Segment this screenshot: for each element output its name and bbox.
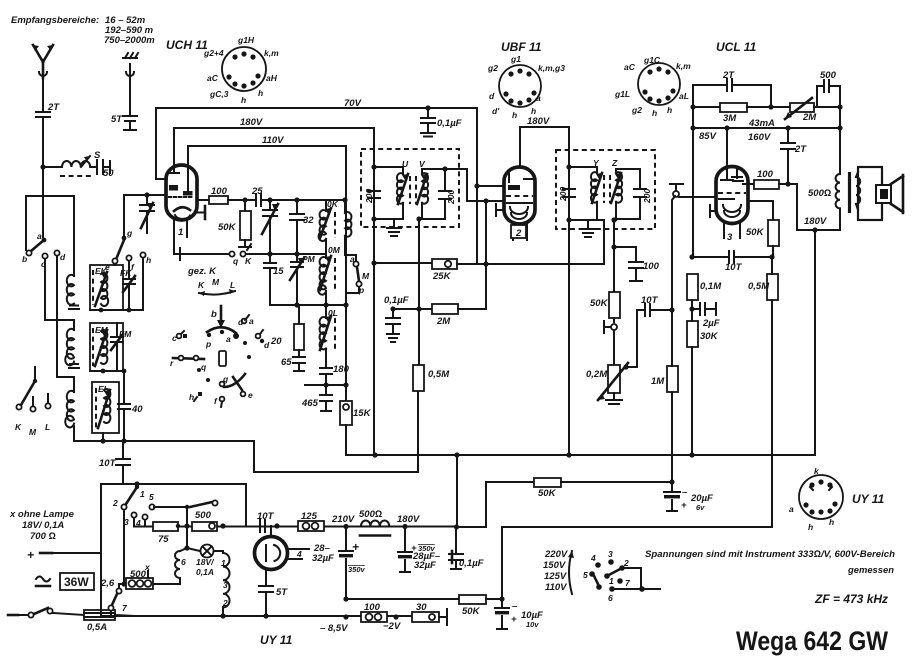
svg-text:43mA: 43mA	[748, 118, 775, 129]
svg-text:Spannungen sind mit Instrument: Spannungen sind mit Instrument 333Ω/V, 6…	[645, 549, 895, 560]
capacitor 10T rectifier	[257, 511, 275, 532]
svg-text:aH: aH	[266, 73, 278, 83]
svg-text:0M: 0M	[328, 245, 341, 255]
svg-text:d: d	[60, 252, 66, 262]
svg-text:50K: 50K	[218, 222, 237, 233]
svg-text:2T: 2T	[722, 70, 735, 81]
wire EM bottom row	[90, 370, 124, 372]
svg-text:6: 6	[608, 593, 613, 603]
wire left bus y441 to y472 step	[74, 391, 418, 472]
capacitor 15	[264, 254, 284, 305]
svg-text:2T: 2T	[794, 144, 807, 155]
svg-text:180V: 180V	[804, 216, 827, 227]
svg-text:200: 200	[642, 189, 652, 204]
svg-text:aC: aC	[624, 62, 636, 72]
node IF1 top dot	[371, 164, 376, 169]
svg-text:L: L	[230, 280, 235, 290]
coil U IF1 primary	[374, 159, 410, 219]
wire V1 cathode to q-row	[174, 250, 180, 254]
svg-text:50K: 50K	[462, 606, 481, 617]
wire wiper to 10T	[626, 310, 637, 367]
capacitor 500 feedback	[817, 70, 840, 107]
wire V1 grid row y195	[147, 194, 165, 196]
coil Y IF2 primary	[569, 158, 604, 220]
capacitor 10T det2	[692, 251, 772, 273]
svg-text:1: 1	[140, 489, 145, 499]
svg-text:5: 5	[583, 570, 588, 580]
svg-text:0,1µF: 0,1µF	[437, 118, 462, 129]
svg-text:25K: 25K	[432, 271, 452, 282]
svg-text:750–2000m: 750–2000m	[104, 35, 155, 46]
trimmer FM	[111, 323, 132, 371]
resistor 30K	[687, 300, 719, 455]
grid cap terminal V1	[197, 212, 205, 214]
svg-text:−2V: −2V	[383, 621, 401, 632]
svg-text:+: +	[511, 614, 517, 625]
resistor 0,5M	[413, 365, 450, 391]
wire osc feed vertical x346	[345, 146, 347, 401]
wire IF1 feed vertical x374	[373, 128, 375, 455]
svg-text:0,1µF: 0,1µF	[384, 295, 409, 306]
wire antenna to switch a	[42, 167, 44, 237]
IF transformer 1 shield box	[361, 149, 459, 227]
svg-text:50K: 50K	[746, 227, 765, 238]
svg-text:65: 65	[281, 357, 292, 368]
oscillator coil 0L	[320, 291, 338, 350]
capacitor 2T feedback top	[693, 70, 771, 107]
resistor 15K osc	[340, 401, 372, 425]
filter choke 500R	[359, 509, 390, 536]
svg-text:k,m,g3: k,m,g3	[538, 63, 565, 73]
node 70V/0,1uF junction	[425, 105, 430, 110]
capacitor 40	[118, 371, 143, 441]
capacitor 200 IF1 right	[439, 169, 456, 219]
svg-text:L: L	[45, 422, 50, 432]
fuse resistor 125	[298, 511, 324, 531]
capacitor 465	[301, 385, 332, 411]
wire IF2 feed x569	[568, 127, 570, 455]
wire grid2 feed x477	[477, 185, 504, 187]
capacitor 25	[251, 186, 345, 206]
wire -8,5V row y599	[346, 598, 459, 600]
svg-text:85V: 85V	[699, 131, 717, 142]
capacitor 32	[290, 200, 314, 254]
resistor 0,5M right	[748, 257, 778, 527]
wire V bottom down x419	[418, 219, 420, 365]
svg-text:700 Ω: 700 Ω	[30, 531, 56, 542]
svg-text:125V: 125V	[544, 571, 567, 582]
potentiometer 2M tone	[785, 98, 840, 123]
svg-text:+: +	[681, 500, 687, 511]
wire bracket input divider	[26, 196, 74, 276]
svg-text:q: q	[201, 362, 207, 372]
coil V IF1 secondary	[416, 159, 445, 219]
svg-text:125: 125	[301, 511, 318, 522]
coil L2 antenna M	[65, 329, 79, 368]
capacitor 0,1uF AF	[384, 295, 409, 342]
heater winding left	[152, 548, 187, 584]
svg-text:500Ω: 500Ω	[808, 188, 831, 199]
svg-text:110V: 110V	[262, 135, 284, 146]
svg-text:0,5M: 0,5M	[748, 281, 770, 292]
capacitor 2T anode	[781, 128, 807, 184]
svg-text:36W: 36W	[64, 575, 89, 589]
rheostat 500 x	[121, 562, 153, 589]
resistor 0,1M	[687, 274, 722, 300]
svg-text:h: h	[146, 255, 151, 265]
svg-text:–: –	[682, 487, 688, 498]
resistor 3M	[693, 103, 790, 124]
svg-text:40: 40	[131, 404, 143, 415]
output transformer 500R	[808, 107, 860, 230]
socket diagram UBF11	[487, 40, 565, 120]
svg-text:5: 5	[149, 492, 154, 502]
svg-text:100: 100	[643, 261, 660, 272]
wire EK bottom row	[90, 258, 143, 310]
svg-text:100: 100	[364, 602, 381, 613]
capacitor 200 IF2 right	[616, 169, 652, 219]
svg-text:b: b	[22, 254, 27, 264]
wire ground bus main y455	[346, 425, 814, 455]
svg-text:4: 4	[296, 549, 302, 559]
svg-text:500Ω: 500Ω	[359, 509, 382, 520]
wire 110V rail	[188, 145, 346, 147]
svg-text:0,1A: 0,1A	[196, 567, 214, 577]
svg-text:3: 3	[608, 549, 613, 559]
oscillator coil 0M	[318, 240, 341, 295]
ground IF1	[387, 219, 401, 236]
lamp 18V 0,1A	[184, 526, 223, 577]
svg-text:M: M	[362, 271, 370, 281]
svg-text:k,m: k,m	[676, 61, 691, 71]
voltage selector contacts	[583, 549, 660, 603]
capacitor 0,1uF HF power	[449, 455, 484, 569]
svg-text:b: b	[211, 309, 217, 320]
svg-text:EL: EL	[98, 384, 109, 394]
antenna A1	[33, 45, 53, 78]
svg-text:h: h	[531, 106, 536, 116]
capacitor 20uF electrolytic	[664, 482, 713, 512]
wire 180V down to bus	[814, 230, 816, 455]
svg-text:2µF: 2µF	[702, 318, 720, 329]
node Z bottom out	[611, 217, 616, 222]
svg-text:h: h	[241, 95, 246, 105]
voltage selector labels	[543, 549, 574, 594]
resistor 100 anode V1	[197, 186, 256, 204]
svg-text:e: e	[105, 262, 110, 272]
svg-text:100: 100	[757, 169, 774, 180]
terminal - mains	[8, 608, 84, 618]
svg-text:M: M	[212, 277, 220, 287]
tube UCL11 V3 envelope	[710, 166, 748, 243]
switch contacts g e f h	[105, 195, 151, 272]
svg-text:– 8,5V: – 8,5V	[320, 623, 348, 634]
svg-text:k,m: k,m	[264, 48, 279, 58]
svg-text:50K: 50K	[538, 488, 557, 499]
wire row y385	[305, 384, 346, 386]
wire right frame x246	[245, 484, 247, 526]
switch contacts 1-5 mains	[112, 485, 187, 584]
svg-text:Z: Z	[611, 158, 618, 168]
svg-text:g1: g1	[510, 54, 521, 64]
svg-text:h: h	[652, 108, 657, 118]
tube V2 label 2	[511, 225, 526, 239]
svg-text:15K: 15K	[353, 408, 372, 419]
svg-text:g2+4: g2+4	[203, 48, 224, 58]
svg-text:M: M	[29, 427, 37, 437]
svg-text:–: –	[512, 601, 518, 612]
wire diode return x486	[485, 201, 487, 309]
svg-text:70V: 70V	[344, 98, 362, 109]
svg-text:180: 180	[333, 364, 350, 375]
power rating box 36W	[60, 573, 94, 590]
svg-text:75: 75	[158, 534, 169, 545]
svg-text:100: 100	[211, 186, 228, 197]
node bus-left dots	[100, 438, 105, 443]
socket diagram UY11	[789, 466, 885, 532]
wire heater row y526	[134, 526, 456, 528]
svg-text:32µF: 32µF	[312, 553, 334, 564]
switch shorting 500	[184, 500, 217, 528]
oscillator coil 0K	[319, 199, 352, 255]
capacitor 2T antenna	[36, 78, 60, 167]
svg-text:UCH 11: UCH 11	[166, 38, 208, 52]
resistor 500 dropper	[192, 510, 217, 531]
svg-text:4: 4	[590, 553, 596, 563]
svg-text:3: 3	[727, 232, 733, 243]
svg-text:K: K	[198, 280, 205, 290]
wire -8,5V rail y527	[502, 527, 772, 599]
capacitor 10T bus	[99, 441, 130, 483]
wire V3 feeds vertical x693	[692, 85, 694, 257]
capacitor 100 detector	[614, 247, 660, 281]
svg-text:UY 11: UY 11	[852, 492, 885, 506]
svg-text:20: 20	[270, 336, 282, 347]
note Empfangsbereiche ranges	[11, 15, 155, 46]
coil Z IF2 secondary	[610, 158, 640, 220]
note x ohne Lampe	[9, 509, 75, 542]
capacitor 5T rectifier	[259, 569, 288, 616]
svg-text:150V: 150V	[543, 560, 566, 571]
svg-text:0,5M: 0,5M	[428, 369, 450, 380]
svg-text:0,1µF: 0,1µF	[459, 558, 484, 569]
trimmer PM	[290, 254, 316, 305]
svg-text:g2: g2	[631, 105, 642, 115]
tube UBF11 V2 envelope	[496, 167, 535, 240]
svg-text:d: d	[264, 340, 270, 350]
svg-text:g: g	[126, 228, 133, 238]
svg-text:UY 11: UY 11	[260, 633, 293, 647]
svg-text:+: +	[352, 540, 359, 554]
speaker	[858, 167, 903, 220]
wire d to coil L row	[57, 256, 74, 392]
wire 70V rail	[156, 108, 477, 264]
svg-text:a: a	[789, 504, 794, 514]
switch S1b contacts K M L	[15, 367, 51, 437]
svg-text:30K: 30K	[700, 331, 719, 342]
socket diagram UCL11	[614, 40, 757, 118]
fuse 0,5A	[84, 610, 134, 633]
coil EM with core	[90, 323, 123, 371]
svg-text:1M: 1M	[651, 376, 665, 387]
pickup input symbol V3 grid	[670, 184, 716, 310]
svg-text:ZF = 473 kHz: ZF = 473 kHz	[814, 592, 888, 606]
capacitor 65	[281, 357, 305, 371]
svg-text:g1L: g1L	[614, 89, 630, 99]
wire 180V rail	[174, 127, 374, 129]
svg-text:K: K	[15, 422, 22, 432]
svg-text:x ohne Lampe: x ohne Lampe	[9, 509, 75, 520]
coil EL with core	[92, 382, 119, 441]
wire c to coil M	[45, 259, 74, 330]
svg-text:aC: aC	[207, 73, 219, 83]
wire 180V rail to 50K row	[456, 482, 486, 527]
svg-text:EM: EM	[95, 325, 109, 335]
svg-text:Empfangsbereiche:: Empfangsbereiche:	[11, 15, 99, 26]
node IF2 dots	[566, 164, 571, 169]
svg-text:10T: 10T	[641, 295, 659, 306]
svg-text:FM: FM	[119, 329, 132, 339]
svg-text:gemessen: gemessen	[847, 565, 894, 576]
capacitor 180	[320, 349, 350, 385]
wire V3 cathode to 50K	[748, 201, 773, 220]
svg-text:+: +	[27, 548, 34, 562]
svg-text:a: a	[249, 316, 254, 326]
capacitor 200 IF2 left	[558, 187, 575, 202]
coil L1 antenna K	[67, 275, 79, 309]
svg-text:200: 200	[558, 187, 568, 202]
resistor 100 V3 anode	[743, 169, 797, 230]
wire detector output x614	[614, 220, 616, 292]
switch contacts a M p osc	[346, 254, 370, 295]
resistor 30	[412, 602, 447, 625]
svg-text:2M: 2M	[436, 316, 451, 327]
wire V2 anode to 180V	[520, 127, 569, 167]
resistor 20 column	[270, 305, 304, 357]
svg-text:10T: 10T	[99, 458, 117, 469]
svg-text:c: c	[172, 333, 177, 343]
svg-text:18V/ 0,1A: 18V/ 0,1A	[22, 520, 64, 531]
svg-text:0,5A: 0,5A	[87, 622, 107, 633]
svg-text:210V: 210V	[331, 514, 355, 525]
svg-text:6: 6	[181, 557, 186, 567]
IF transformer 2 shield box	[556, 150, 655, 229]
svg-text:10T: 10T	[725, 262, 743, 273]
wire V top to diode line	[445, 169, 504, 201]
svg-text:e: e	[248, 390, 253, 400]
svg-text:1: 1	[178, 227, 183, 238]
svg-text:1: 1	[221, 558, 226, 568]
node 2uF junction	[689, 306, 694, 311]
svg-text:d': d'	[492, 106, 500, 116]
svg-text:50: 50	[103, 168, 114, 179]
socket diagram UCH11	[166, 35, 279, 105]
svg-text:32µF: 32µF	[414, 560, 436, 571]
switch S1a contacts a b c d	[22, 231, 66, 269]
svg-text:10v: 10v	[526, 620, 539, 629]
svg-text:a: a	[37, 231, 42, 241]
node 50K-row junction	[669, 479, 674, 484]
svg-text:q: q	[233, 256, 239, 266]
resistor 50K cathode	[746, 220, 779, 257]
electrolytic 10uF bias	[495, 599, 543, 629]
svg-text:PM: PM	[302, 254, 316, 264]
svg-text:a: a	[226, 334, 231, 344]
capacitor 10T coupling	[637, 295, 672, 316]
svg-text:a: a	[536, 93, 541, 103]
capacitor 0,1uF decoupling 70V	[421, 108, 462, 137]
svg-text:g2: g2	[487, 63, 498, 73]
svg-text:25: 25	[251, 186, 263, 197]
svg-text:180V: 180V	[240, 117, 263, 128]
terminal + mains	[27, 548, 101, 562]
svg-text:6v: 6v	[696, 503, 705, 512]
heater winding right taps 1 3 2	[221, 551, 230, 616]
electrolytic 28uF-32uF output	[398, 526, 441, 572]
svg-text:180V: 180V	[397, 514, 420, 525]
wafer switch diagram	[170, 306, 270, 407]
svg-text:g1H: g1H	[237, 35, 255, 45]
svg-text:h: h	[829, 517, 834, 527]
svg-text:h: h	[512, 110, 517, 120]
antenna ground A2	[123, 53, 138, 76]
svg-text:3: 3	[223, 580, 228, 590]
svg-text:32: 32	[303, 215, 314, 226]
coil L3 antenna L	[65, 391, 74, 441]
svg-text:465: 465	[301, 398, 319, 409]
pickup jack symbol	[604, 318, 617, 365]
wirewound resistor 100	[343, 602, 387, 622]
capacitor 2uF	[692, 303, 720, 329]
electrolytic 28-32uF input	[312, 526, 366, 599]
svg-text:180V: 180V	[527, 116, 550, 127]
svg-text:30: 30	[416, 602, 427, 613]
svg-text:160V: 160V	[748, 132, 771, 143]
wire 180V output node	[797, 229, 840, 231]
svg-text:2T: 2T	[47, 102, 60, 113]
note measurement conditions	[645, 549, 895, 576]
trimmer FK	[120, 261, 135, 310]
wire bottom rail y616	[101, 615, 412, 617]
svg-text:50K: 50K	[590, 298, 609, 309]
switch 2,6 / 7	[100, 578, 128, 616]
svg-text:p: p	[205, 339, 211, 349]
svg-text:110V: 110V	[545, 582, 567, 593]
svg-text:aL: aL	[679, 91, 689, 101]
svg-text:g1C: g1C	[643, 55, 661, 65]
tube UCH11 V1 envelope	[156, 108, 197, 250]
svg-text:h: h	[667, 105, 672, 115]
svg-text:h: h	[258, 88, 263, 98]
svg-text:200: 200	[364, 189, 374, 204]
svg-text:K: K	[245, 256, 252, 266]
note K M L arrow	[198, 277, 235, 296]
node bus dots	[372, 452, 377, 457]
svg-text:5T: 5T	[276, 587, 288, 598]
svg-text:gC,3: gC,3	[209, 89, 229, 99]
coil EK with core	[90, 265, 123, 310]
node mixer row dots	[242, 197, 247, 202]
wire power box frame	[101, 484, 246, 616]
svg-text:0,1M: 0,1M	[700, 281, 722, 292]
resistor 25K AVC	[374, 228, 604, 282]
svg-text:2: 2	[515, 228, 522, 239]
svg-text:1: 1	[609, 576, 614, 586]
svg-text:0K: 0K	[327, 199, 339, 209]
coil S with trimmer 50	[43, 150, 114, 179]
svg-text:3M: 3M	[723, 113, 737, 124]
svg-text:Wega 642 GW: Wega 642 GW	[736, 626, 888, 656]
